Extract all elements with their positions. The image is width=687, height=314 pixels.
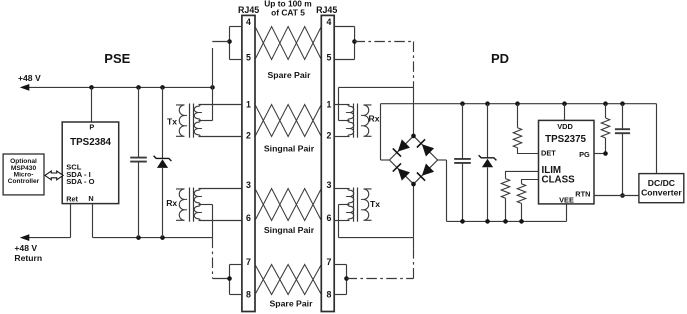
wire T2 tap riser to return rail	[212, 205, 214, 238]
wire T2 top to RJ45 pin3	[199, 188, 242, 190]
wire bracket pins 4-5 right	[354, 27, 356, 60]
svg-text:VDD: VDD	[557, 122, 573, 131]
node cap junction on +48V rail	[136, 85, 141, 90]
node zener junction on return rail	[160, 235, 165, 240]
wire bridge left corner to DC riser	[381, 159, 390, 161]
svg-text:6: 6	[246, 213, 251, 223]
node C3 junction on DC rail	[620, 101, 625, 106]
transformer T1 primary winding	[176, 105, 185, 136]
resistor R2 ILIM	[501, 179, 509, 199]
node P-pin junction on +48V rail	[89, 85, 94, 90]
svg-text:Spare Pair: Spare Pair	[270, 299, 314, 309]
wire J1 pin8 stub	[230, 294, 242, 296]
wire PD rail to bridge top	[413, 87, 415, 135]
svg-text:Ret: Ret	[66, 194, 78, 203]
twisted pair 4-5 spare	[255, 27, 321, 60]
wire T2 center tap	[199, 204, 213, 206]
wire bracket pins 4-5 left	[229, 27, 231, 60]
svg-text:PSE: PSE	[104, 51, 130, 66]
wire bracket pins 7-8 left	[229, 265, 231, 295]
transformer T1 secondary winding	[194, 105, 200, 121]
zener D1	[154, 156, 172, 161]
capacitor C2 top lead	[462, 104, 464, 159]
node R4 junction on DC rail	[603, 101, 608, 106]
wire R4 top lead	[605, 104, 607, 118]
wire PD VEE rail	[447, 220, 567, 222]
transformer T1 core	[189, 104, 191, 138]
wire dash-dot spare top to bridge riser	[355, 41, 414, 43]
svg-text:Rx: Rx	[166, 198, 177, 208]
wire dash-dot riser to PD rail	[413, 42, 415, 88]
svg-text:RJ45: RJ45	[316, 5, 337, 15]
svg-text:Tx: Tx	[167, 116, 177, 126]
svg-text:1: 1	[246, 99, 251, 109]
wire DC rail to DC/DC	[656, 104, 658, 174]
wire VDD riser	[564, 104, 566, 121]
node PG junction	[603, 151, 608, 156]
node bracket 7-8 left junction	[227, 276, 232, 281]
capacitor C3 top lead	[622, 104, 624, 130]
wire PD DC+ rail	[381, 103, 657, 105]
capacitor C3	[615, 128, 630, 130]
wire R3 bottom lead	[521, 203, 523, 221]
wire bridge edge top-left	[389, 136, 413, 160]
node D7 junction on DC rail	[485, 101, 490, 106]
svg-text:7: 7	[326, 257, 331, 267]
diode D3 bridge top-left	[398, 139, 410, 151]
svg-text:TPS2375: TPS2375	[545, 134, 586, 145]
svg-text:5: 5	[246, 52, 251, 62]
wire J2 pin1 to T3	[334, 104, 349, 106]
svg-text:TPS2384: TPS2384	[70, 137, 111, 148]
wire T1 top to RJ45 pin1	[199, 104, 242, 106]
wire RTN to DC/DC	[594, 195, 639, 197]
wire R1 to DET pin	[518, 148, 539, 154]
twisted pair 3-6 signal	[255, 189, 321, 221]
wire bracket pins 7-8 right	[346, 265, 348, 295]
wire PG pin lead	[594, 153, 606, 155]
svg-text:Controller: Controller	[8, 178, 40, 185]
wire bridge edge bottom-right	[414, 160, 438, 184]
svg-text:P: P	[89, 122, 94, 131]
svg-text:7: 7	[246, 257, 251, 267]
box U2 TPS2375	[539, 120, 595, 203]
wire CLASS pin lead	[522, 180, 539, 184]
svg-text:3: 3	[246, 180, 251, 190]
wire return riser dash-dot to spare pair	[212, 238, 214, 279]
wire bridge edge bottom-left	[389, 160, 413, 184]
svg-text:+48 V: +48 V	[18, 73, 41, 83]
wire return rail right segment	[93, 237, 213, 239]
connector J1 RJ45 left	[242, 15, 255, 311]
wire T4 tap riser to PD AC rail	[338, 205, 340, 238]
wire bridge right corner to VEE riser	[438, 159, 447, 161]
node R1 junction on DC rail	[515, 101, 520, 106]
zener D7	[479, 155, 497, 160]
svg-text:Return: Return	[14, 253, 42, 263]
resistor R1 detection	[513, 128, 521, 148]
wire to pins 7-8 bracket	[213, 278, 230, 280]
wire T3 tap riser to PD rail	[338, 87, 340, 120]
svg-text:RTN: RTN	[575, 189, 590, 198]
twisted pair 1-2 signal	[255, 105, 321, 137]
node C2 junction on VEE rail	[460, 219, 465, 224]
node bracket 4-5 left junction	[227, 39, 232, 44]
transformer T3 line winding	[348, 105, 354, 121]
wire Ret pin riser	[70, 204, 72, 238]
svg-text:Singnal Pair: Singnal Pair	[264, 225, 315, 235]
svg-text:PD: PD	[491, 51, 509, 66]
wire R1 top lead	[517, 104, 519, 128]
arrow I2C bidirectional	[45, 171, 63, 180]
svg-text:Tx: Tx	[370, 199, 380, 209]
wire riser solid to PD AC rail	[413, 238, 415, 248]
svg-text:8: 8	[246, 289, 251, 299]
resistor R4 PG pull-up	[601, 118, 609, 138]
wire T2 bottom to RJ45 pin6	[199, 220, 242, 222]
wire DC riser up	[380, 104, 382, 160]
capacitor C1	[130, 157, 147, 159]
svg-text:RJ45: RJ45	[238, 5, 259, 15]
wire J2 pin5 stub	[334, 59, 354, 61]
diode D4 bridge top-right	[422, 144, 434, 156]
wire R2 bottom lead	[505, 198, 507, 221]
svg-text:4: 4	[326, 17, 331, 27]
zener D1 top lead	[162, 87, 164, 158]
diode D6 bridge bottom-right	[422, 164, 434, 176]
wire T3 center tap	[339, 120, 350, 122]
svg-text:2: 2	[246, 131, 251, 141]
transformer T4 device winding	[364, 189, 372, 220]
svg-text:N: N	[88, 194, 93, 203]
wire J2 pin7 stub	[334, 264, 346, 266]
svg-text:2: 2	[326, 131, 331, 141]
arrowhead +48 V	[20, 84, 30, 91]
node cap junction on return rail	[136, 235, 141, 240]
svg-text:Spare Pair: Spare Pair	[268, 70, 312, 80]
svg-text:3: 3	[326, 180, 331, 190]
wire bridge edge top-right	[414, 136, 438, 160]
wire R4 bottom lead	[605, 138, 607, 154]
transformer T2 core	[189, 188, 191, 222]
resistor R3 CLASS	[517, 184, 525, 204]
arrowhead +48 V Return	[20, 234, 30, 241]
transformer T4 line winding	[348, 189, 354, 205]
svg-text:PG: PG	[579, 150, 590, 159]
box U1 TPS2384	[62, 122, 118, 204]
zener D7 bottom lead	[487, 167, 489, 221]
capacitor C1 bottom lead	[138, 162, 140, 238]
zener D1 bottom lead	[162, 168, 164, 238]
wire T1 bottom to RJ45 pin2	[199, 136, 242, 138]
svg-text:Rx: Rx	[369, 114, 380, 124]
node bracket 7-8 right junction	[344, 276, 349, 281]
node bridge top corner	[411, 134, 416, 139]
node D7 junction on VEE rail	[485, 219, 490, 224]
wire +48 V rail (PSE top)	[27, 86, 213, 88]
svg-text:+48 V: +48 V	[14, 243, 37, 253]
node C2 junction on DC rail	[460, 101, 465, 106]
wire J1 pin7 stub	[230, 264, 242, 266]
zener D7 top lead	[487, 104, 489, 158]
wire +48V riser to T1 tap	[212, 48, 214, 121]
transformer T2 secondary winding	[194, 189, 200, 205]
capacitor C1 top lead	[138, 87, 140, 157]
capacitor C3 bottom lead	[622, 133, 624, 195]
transformer T3 device winding	[364, 105, 372, 136]
transformer T2 primary winding	[176, 189, 185, 220]
wire ILIM pin lead	[506, 171, 539, 178]
svg-text:DET: DET	[541, 149, 556, 158]
wire dash to +48V riser	[212, 41, 229, 43]
node R3 junction on VEE rail	[519, 219, 524, 224]
wire J1 pin5 stub	[230, 59, 242, 61]
svg-text:SDA - O: SDA - O	[66, 177, 94, 186]
wire bridge bottom to PD AC rail	[413, 184, 415, 238]
svg-text:4: 4	[246, 17, 251, 27]
diode D5 bridge bottom-left	[398, 168, 410, 180]
wire T4 center tap	[339, 204, 350, 206]
transformer T3 core	[353, 104, 355, 138]
svg-text:Converter: Converter	[641, 187, 682, 197]
wire VEE riser down	[446, 160, 448, 221]
wire return rail left segment	[27, 237, 71, 239]
svg-text:8: 8	[326, 289, 331, 299]
capacitor C2	[454, 158, 471, 160]
node Tx tap junction on +48V rail	[210, 85, 215, 90]
node R2 junction on VEE rail	[503, 219, 508, 224]
svg-text:5: 5	[326, 52, 331, 62]
capacitor C2 bottom lead	[462, 163, 464, 222]
node VDD junction on DC rail	[562, 101, 567, 106]
svg-text:Singnal Pair: Singnal Pair	[264, 144, 315, 154]
twisted pair 7-8 spare	[255, 265, 321, 295]
wire T1 center tap	[199, 120, 213, 122]
node bracket 4-5 right junction	[352, 39, 357, 44]
wire PD AC bottom rail	[339, 237, 414, 239]
node bridge bottom corner	[411, 182, 416, 187]
box U3 DC/DC converter	[639, 174, 684, 203]
wire J2 pin8 stub	[334, 294, 346, 296]
wire J2 pin6 to T4	[334, 220, 349, 222]
wire N pin riser	[92, 204, 94, 238]
wire J2 pin2 to T3	[334, 136, 349, 138]
node zener junction on +48V rail	[160, 85, 165, 90]
wire dash-dot riser to PD AC rail	[413, 248, 415, 279]
wire J2 pin4 stub	[334, 26, 354, 28]
wire P pin riser	[91, 87, 93, 122]
wire J1 pin4 stub	[230, 26, 242, 28]
wire VEE pin lead	[566, 204, 568, 222]
wire J2 pin3 to T4	[334, 188, 349, 190]
svg-text:CLASS: CLASS	[542, 175, 576, 186]
svg-text:VEE: VEE	[559, 195, 574, 204]
node C3 junction on RTN	[620, 193, 625, 198]
box MSP430 micro-controller	[3, 154, 44, 195]
svg-text:1: 1	[326, 99, 331, 109]
wire PD top rail	[339, 86, 414, 88]
wire dash-dot spare bottom to bridge riser	[347, 278, 414, 280]
connector J2 RJ45 right	[321, 15, 334, 311]
svg-text:6: 6	[326, 213, 331, 223]
transformer T4 core	[353, 188, 355, 222]
svg-text:of CAT 5: of CAT 5	[271, 7, 305, 17]
